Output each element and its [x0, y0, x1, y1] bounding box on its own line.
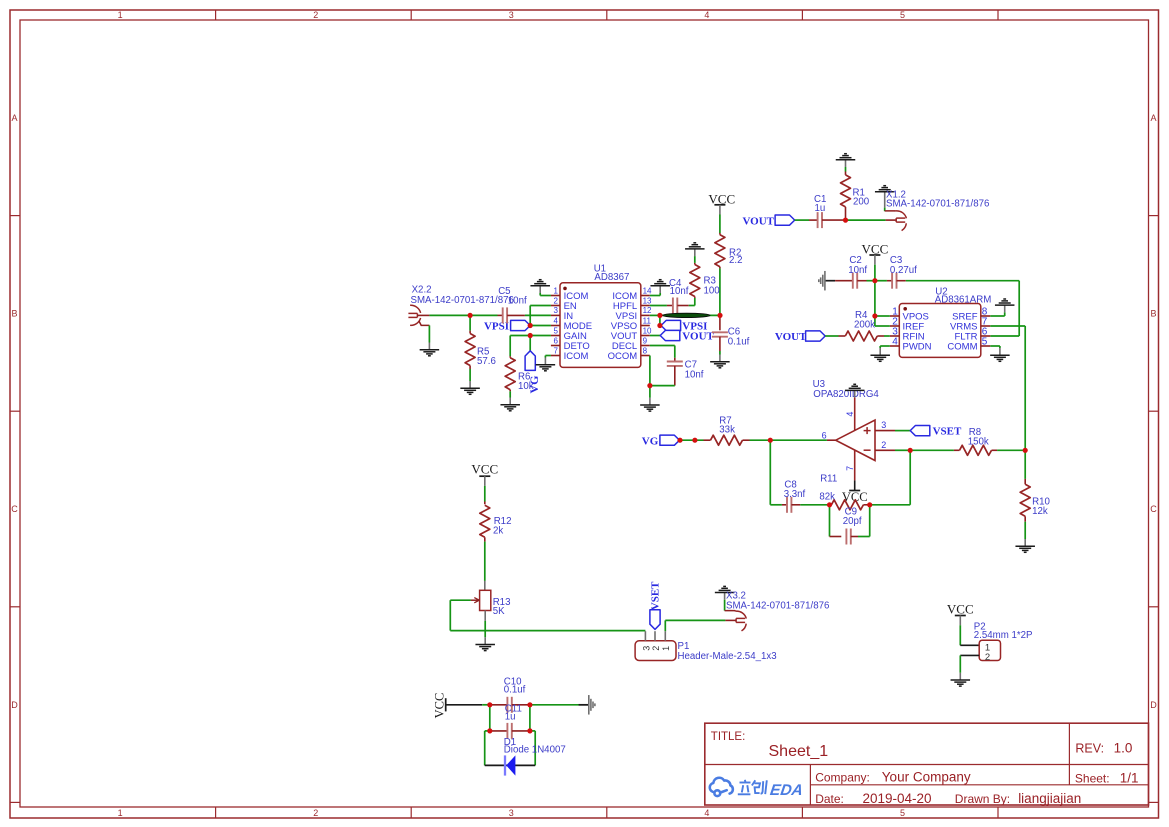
svg-text:VOUT: VOUT — [742, 215, 774, 227]
svg-text:2: 2 — [881, 440, 886, 450]
svg-text:100: 100 — [704, 285, 721, 296]
svg-text:TITLE:: TITLE: — [711, 731, 746, 743]
svg-text:0.1uf: 0.1uf — [728, 336, 750, 347]
svg-text:D: D — [11, 700, 18, 710]
svg-text:C: C — [11, 504, 18, 514]
svg-text:5: 5 — [554, 326, 559, 335]
svg-text:Header-Male-2.54_1x3: Header-Male-2.54_1x3 — [678, 651, 777, 662]
svg-text:VOUT: VOUT — [682, 331, 714, 343]
svg-text:1: 1 — [661, 646, 671, 651]
svg-text:C: C — [1150, 504, 1157, 514]
svg-text:COMM: COMM — [947, 341, 977, 352]
svg-text:4: 4 — [892, 336, 898, 347]
svg-text:10nf: 10nf — [685, 369, 704, 380]
svg-text:VSET: VSET — [933, 425, 962, 437]
svg-text:10: 10 — [643, 326, 652, 335]
svg-text:AD8367: AD8367 — [594, 272, 629, 283]
svg-text:VCC: VCC — [471, 462, 498, 477]
svg-text:VPSI: VPSI — [484, 320, 509, 332]
svg-text:A: A — [1150, 113, 1156, 123]
svg-text:4: 4 — [554, 316, 559, 325]
svg-text:10nf: 10nf — [670, 286, 689, 297]
svg-text:1.0: 1.0 — [1114, 741, 1133, 756]
svg-text:1/1: 1/1 — [1120, 771, 1139, 786]
svg-text:4: 4 — [845, 412, 855, 417]
svg-text:B: B — [1150, 309, 1156, 319]
svg-text:2019-04-20: 2019-04-20 — [863, 791, 932, 806]
svg-text:VCC: VCC — [947, 601, 974, 616]
svg-text:20pf: 20pf — [843, 516, 862, 527]
svg-text:3.3nf: 3.3nf — [784, 489, 806, 500]
svg-text:2.54mm 1*2P: 2.54mm 1*2P — [974, 630, 1033, 641]
svg-text:5: 5 — [900, 808, 905, 818]
svg-text:2k: 2k — [493, 526, 503, 537]
svg-text:Drawn By:: Drawn By: — [955, 792, 1010, 806]
svg-text:1u: 1u — [815, 203, 826, 214]
svg-text:2.2: 2.2 — [729, 255, 742, 266]
svg-text:13: 13 — [643, 296, 652, 305]
svg-text:1: 1 — [554, 286, 559, 295]
svg-text:B: B — [11, 309, 17, 319]
svg-text:10nf: 10nf — [508, 295, 527, 306]
svg-text:33k: 33k — [719, 425, 735, 436]
svg-text:Company:: Company: — [815, 771, 870, 785]
svg-text:D: D — [1150, 700, 1157, 710]
svg-text:2: 2 — [554, 296, 559, 305]
svg-text:0.1uf: 0.1uf — [504, 685, 526, 696]
svg-text:PWDN: PWDN — [903, 341, 932, 352]
svg-text:12: 12 — [643, 306, 652, 315]
svg-text:6: 6 — [554, 336, 559, 345]
svg-text:3: 3 — [881, 420, 886, 430]
svg-text:VG: VG — [527, 376, 541, 394]
svg-text:11: 11 — [643, 316, 652, 325]
svg-text:SMA-142-0701-871/876: SMA-142-0701-871/876 — [726, 600, 829, 611]
svg-text:10nf: 10nf — [848, 265, 867, 276]
svg-text:AD8361ARM: AD8361ARM — [935, 295, 992, 306]
svg-text:VSET: VSET — [650, 581, 662, 610]
svg-text:liangjiajian: liangjiajian — [1018, 791, 1081, 806]
svg-text:VCC: VCC — [862, 241, 889, 256]
svg-text:6: 6 — [822, 430, 827, 440]
svg-text:1: 1 — [118, 808, 123, 818]
svg-text:EDA: EDA — [769, 782, 804, 799]
svg-text:5K: 5K — [493, 606, 505, 617]
svg-text:200: 200 — [853, 197, 870, 208]
svg-text:3: 3 — [641, 646, 651, 651]
svg-text:5: 5 — [982, 336, 988, 347]
svg-text:2: 2 — [313, 808, 318, 818]
svg-text:14: 14 — [643, 286, 652, 295]
svg-text:5: 5 — [900, 10, 905, 20]
svg-text:57.6: 57.6 — [477, 356, 496, 367]
svg-text:8: 8 — [643, 346, 648, 355]
svg-text:9: 9 — [643, 336, 648, 345]
svg-text:12k: 12k — [1032, 506, 1048, 517]
svg-text:VG: VG — [642, 435, 659, 447]
svg-text:VCC: VCC — [432, 693, 446, 719]
svg-text:Your Company: Your Company — [882, 770, 971, 785]
svg-text:ICOM: ICOM — [564, 351, 589, 362]
svg-text:4: 4 — [704, 10, 709, 20]
svg-text:Date:: Date: — [815, 792, 844, 806]
svg-text:Sheet:: Sheet: — [1075, 772, 1110, 786]
svg-text:A: A — [11, 113, 17, 123]
svg-text:82k: 82k — [819, 492, 835, 503]
svg-text:3: 3 — [509, 808, 514, 818]
svg-text:1: 1 — [118, 10, 123, 20]
svg-text:7: 7 — [845, 466, 855, 471]
svg-text:REV:: REV: — [1075, 742, 1104, 756]
svg-text:200k: 200k — [854, 319, 875, 330]
svg-text:4: 4 — [704, 808, 709, 818]
svg-text:VOUT: VOUT — [775, 331, 807, 343]
svg-text:2: 2 — [985, 652, 990, 663]
svg-text:Sheet_1: Sheet_1 — [769, 743, 829, 760]
svg-text:7: 7 — [554, 346, 559, 355]
svg-text:0.27uf: 0.27uf — [890, 265, 917, 276]
svg-text:2: 2 — [651, 646, 661, 651]
svg-text:3: 3 — [554, 306, 559, 315]
svg-text:OCOM: OCOM — [608, 351, 638, 362]
svg-text:2: 2 — [313, 10, 318, 20]
svg-text:3: 3 — [509, 10, 514, 20]
svg-text:1u: 1u — [505, 711, 516, 722]
svg-text:150k: 150k — [968, 437, 989, 448]
svg-text:SMA-142-0701-871/876: SMA-142-0701-871/876 — [886, 199, 989, 210]
svg-text:Diode 1N4007: Diode 1N4007 — [504, 744, 566, 755]
svg-text:R11: R11 — [820, 473, 837, 484]
